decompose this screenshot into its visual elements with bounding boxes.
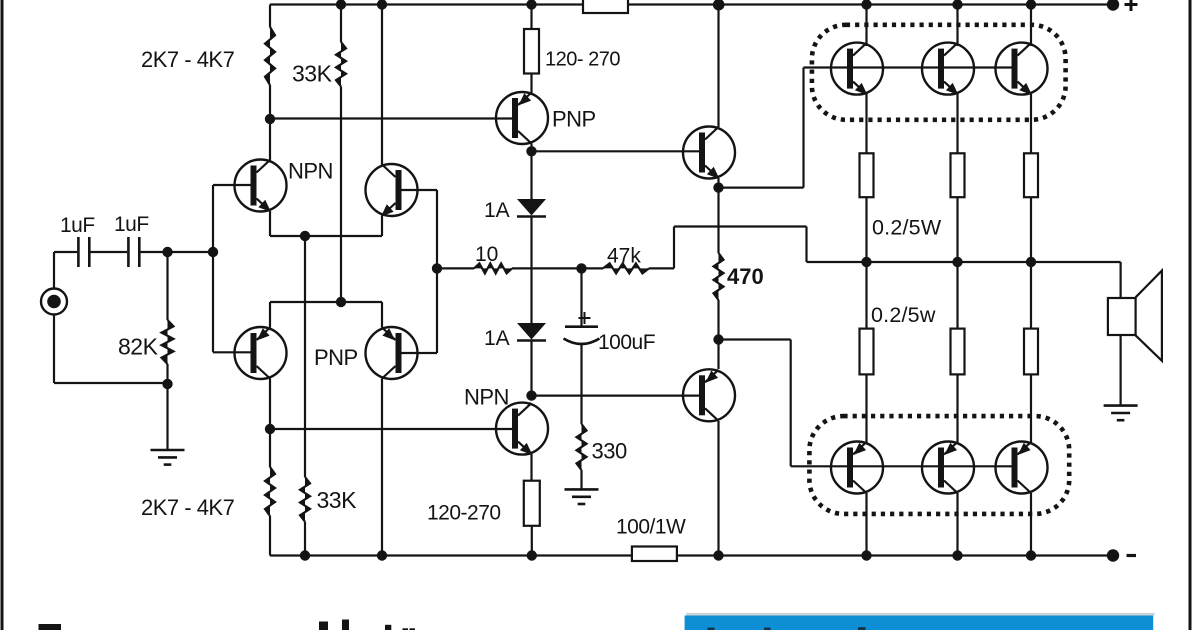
wire output rail to R 14 [1030, 262, 1032, 329]
node upper tail junction [300, 231, 310, 241]
resistor R5 33K bottom [300, 477, 310, 556]
wire upper emitter rail [270, 235, 382, 237]
wire lower emitter rail [270, 301, 382, 303]
resistor R2 2K7-4K7 top [265, 5, 275, 120]
label PNP pair [314, 345, 358, 370]
wire R to output rail 11 [1030, 197, 1032, 262]
svg-text:120- 270: 120- 270 [545, 49, 620, 71]
label 33K bottom [317, 487, 358, 513]
diode D1 1A [517, 199, 546, 217]
speaker LS1 [1108, 271, 1162, 361]
transistor Q8 PNP driver [683, 369, 735, 421]
svg-text:1A: 1A [484, 199, 510, 222]
transistor Q6 NPN VAS [496, 403, 548, 456]
wire R to output rail 9 [865, 197, 867, 262]
transistor Q2 NPN input right [366, 164, 418, 217]
wire Q7 emitter down [717, 178, 719, 253]
resistor R4 2K7-4K7 bottom [265, 467, 275, 556]
node input junction [208, 247, 218, 257]
transistor Q9 NPN output [831, 43, 883, 96]
label - negative supply [1127, 554, 1137, 557]
wire negative supply rail [270, 554, 1113, 556]
wire input to bases [212, 185, 214, 352]
wire feedback column [436, 190, 438, 353]
wire Q6 emitter down [530, 454, 532, 481]
wire D2 to Q6 collector [530, 341, 532, 397]
svg-text:330: 330 [592, 439, 627, 464]
wire Q6 collector to driver base [532, 395, 702, 397]
svg-text:0.2/5w: 0.2/5w [871, 303, 936, 327]
node Q13 collector rail dot [952, 550, 962, 560]
resistor R1 82K [162, 252, 174, 450]
wire Q1 emitter down [269, 211, 271, 236]
right page border [1189, 0, 1192, 630]
blue button shadow [686, 613, 1155, 616]
svg-text:100uF: 100uF [598, 331, 655, 354]
label 1uF C2 [114, 213, 149, 236]
dotted box PNP output group [809, 416, 1069, 514]
resistor R7 120-270 bottom [524, 481, 540, 526]
resistor R6 120-270 top [524, 29, 539, 74]
wire R7 to rail [531, 526, 533, 556]
wire base lead Q2 [396, 189, 437, 191]
node output rail dot 10 [952, 257, 962, 267]
node Q7 collector rail dot [713, 0, 725, 11]
node Q6 collector junction [526, 390, 536, 400]
label 120- 270 top [545, 49, 620, 71]
wire Q9 collector [865, 5, 867, 47]
wire positive supply rail [270, 3, 1113, 5]
node Q14 collector rail dot [1026, 550, 1036, 560]
node R5 rail dot [300, 550, 310, 560]
capacitor C3 100uF [564, 268, 600, 424]
wire Q7 collector up [717, 5, 719, 128]
wire Q10 collector [956, 5, 958, 47]
node R7 rail dot [527, 550, 537, 560]
wire Q13 collector [956, 493, 958, 556]
input jack J1 [41, 289, 67, 315]
svg-text:82K: 82K [118, 334, 159, 360]
wire R6 to Q5 [530, 74, 532, 94]
node Q7 emitter junction [713, 182, 723, 192]
transistor Q14 PNP output [996, 442, 1048, 494]
label 10 [475, 243, 498, 266]
resistor 0.2 ohm emitter 10 [951, 153, 965, 197]
node Q1 collector junction [265, 114, 275, 124]
wire Q8 emitter to bottom bases [719, 340, 1017, 467]
label 2K7 - 4K7 bottom [141, 495, 235, 520]
node 33K top rail dot [336, 0, 346, 10]
node R6 rail dot [526, 0, 536, 10]
wire C2 to input node [141, 251, 214, 253]
label 0.2/5W [872, 216, 942, 240]
resistor 0.2 ohm emitter 12 [860, 329, 874, 375]
svg-text:47k: 47k [607, 245, 641, 268]
node Q2 collector rail dot [377, 0, 387, 10]
wire output rail to R 13 [956, 262, 958, 329]
wire R to Q12 emitter [865, 374, 867, 443]
wire R to Q13 emitter [956, 374, 958, 443]
wire Q6 base lead [270, 428, 514, 430]
transistor Q4 PNP input right [366, 327, 418, 379]
wire D1 anode [530, 151, 532, 199]
svg-text:PNP: PNP [314, 345, 358, 370]
capacitor C2 1uF [128, 237, 139, 267]
node Q8 emitter junction [713, 334, 723, 344]
transistor Q12 PNP output [831, 442, 883, 494]
transistor Q10 NPN output [922, 43, 974, 96]
label 1uF C1 [60, 214, 95, 237]
transistor Q7 NPN driver [683, 127, 735, 180]
node Q10 collector rail dot [952, 0, 962, 10]
svg-text:NPN: NPN [464, 385, 509, 410]
wire Q2 collector up [381, 5, 383, 166]
label 0.2/5w [871, 303, 936, 327]
node Q4 collector rail dot [377, 550, 387, 560]
node Q11 collector rail dot [1026, 0, 1036, 10]
svg-text:33K: 33K [292, 61, 333, 87]
wire Q12 collector [865, 493, 867, 556]
resistor R8 10 [437, 263, 582, 273]
diode D2 1A [517, 323, 546, 341]
node Q9 collector rail dot [861, 0, 871, 10]
resistor R9 47k [582, 263, 675, 273]
wire D1 to D2 [530, 217, 532, 324]
label 100uF [598, 331, 655, 354]
fuse F1 on positive rail [583, 0, 628, 13]
wire Q5 collector down [530, 144, 532, 152]
node Q12 collector rail dot [861, 550, 871, 560]
label 120-270 bottom [427, 502, 501, 525]
wire Q4 collector down [381, 379, 383, 556]
wire 33K rail stub [340, 5, 342, 43]
label 47k [607, 245, 641, 268]
node positive terminal dot [1107, 0, 1119, 11]
label 33K top [292, 61, 333, 87]
label PNP Q5 [552, 107, 596, 132]
wire Q3 collector down [269, 379, 271, 468]
wire Q1 collector to VAS base [270, 117, 514, 119]
node output rail dot 11 [1026, 257, 1036, 267]
svg-text:100/1W: 100/1W [616, 516, 686, 539]
wire base lead Q3 [213, 351, 254, 353]
label 470 bold [727, 264, 764, 289]
wire Q11 emitter to R [1030, 94, 1032, 153]
resistor 0.2 ohm emitter 13 [951, 329, 965, 375]
resistor 0.2 ohm emitter 9 [860, 153, 874, 197]
label + positive supply [1125, 0, 1138, 11]
svg-text:1A: 1A [484, 327, 510, 350]
svg-text:33K: 33K [317, 487, 358, 513]
wire output rail [807, 262, 1121, 298]
wire Q9 emitter to R [865, 94, 867, 153]
wire base lead Q4 [396, 352, 437, 354]
wire Q4 emitter up [381, 302, 383, 328]
node lower tail junction [336, 297, 346, 307]
node Q8 collector rail dot [713, 550, 723, 560]
node 82K top junction [162, 247, 172, 257]
wire Q2 emitter down [381, 216, 383, 237]
label 1A D2 [484, 327, 510, 350]
wire base lead Q1 [213, 184, 254, 186]
wire jack top lead [54, 252, 77, 289]
transistor Q5 PNP VAS [496, 92, 548, 144]
wire speaker to ground [1119, 335, 1121, 406]
transistor Q1 NPN input left [235, 160, 287, 213]
ground speaker [1104, 406, 1138, 421]
wire tail column [304, 236, 306, 477]
resistor R13 100/1W [632, 547, 677, 562]
resistor 0.2 ohm emitter 11 [1024, 153, 1038, 197]
node Q5 collector junction [526, 146, 536, 156]
svg-text:2K7 - 4K7: 2K7 - 4K7 [141, 495, 235, 520]
blue button box [685, 616, 1154, 630]
node R1 bottom junction [162, 379, 172, 389]
blue button text fragments [708, 627, 866, 630]
transistor Q11 NPN output [996, 43, 1048, 96]
left page border [1, 0, 4, 630]
label 2K7 - 4K7 top [141, 47, 235, 72]
node Q3 collector junction [265, 424, 275, 434]
dotted box NPN output group [812, 25, 1066, 120]
label NPN Q1 [288, 159, 333, 184]
wire output rail to R 12 [865, 262, 867, 329]
node output rail dot 9 [861, 257, 871, 267]
wire R to output rail 10 [956, 197, 958, 262]
svg-text:1uF: 1uF [114, 213, 149, 236]
label 100/1W [616, 516, 686, 539]
label NPN Q6 [464, 385, 509, 410]
transistor Q13 PNP output [922, 442, 974, 494]
wire Q3 emitter up [269, 302, 271, 328]
svg-text:0.2/5W: 0.2/5W [872, 216, 942, 240]
transistor Q3 PNP input left [235, 327, 287, 379]
resistor 0.2 ohm emitter 14 [1024, 329, 1038, 375]
node 100uF junction [576, 263, 586, 273]
svg-text:1uF: 1uF [60, 214, 95, 237]
wire Q1 collector up [269, 119, 271, 161]
label 1A D1 [484, 199, 510, 222]
wire Q7 emitter to top bases [719, 68, 1017, 188]
svg-text:NPN: NPN [288, 159, 333, 184]
wire Q14 collector [1030, 493, 1032, 556]
resistor R3 33K top [336, 42, 346, 302]
svg-text:470: 470 [727, 264, 764, 289]
label 330 [592, 439, 627, 464]
wire rail to R6 [530, 5, 532, 30]
wire Q8 collector down [717, 421, 719, 556]
wire 47k jog up [674, 227, 807, 269]
svg-text:PNP: PNP [552, 107, 596, 132]
ground input [151, 450, 185, 465]
resistor R10 330 [577, 424, 587, 489]
caption heading top fragments [39, 620, 416, 630]
wire Q10 emitter to R [956, 94, 958, 153]
resistor R11 470 [714, 253, 724, 369]
svg-text:2K7 - 4K7: 2K7 - 4K7 [141, 47, 235, 72]
wire R to Q14 emitter [1030, 374, 1032, 443]
capacitor C1 1uF [78, 237, 89, 267]
wire between C1 C2 [91, 251, 128, 253]
ground 330 [565, 489, 599, 504]
wire Q11 collector [1030, 5, 1032, 47]
wire jack bottom lead [54, 315, 168, 384]
wire Q5 to driver base [532, 150, 702, 152]
svg-text:10: 10 [475, 243, 498, 266]
svg-text:120-270: 120-270 [427, 502, 501, 525]
node negative terminal dot [1107, 549, 1119, 561]
label + C3 polarity [579, 312, 591, 324]
label 82K [118, 334, 159, 360]
node feedback junction [432, 263, 442, 273]
